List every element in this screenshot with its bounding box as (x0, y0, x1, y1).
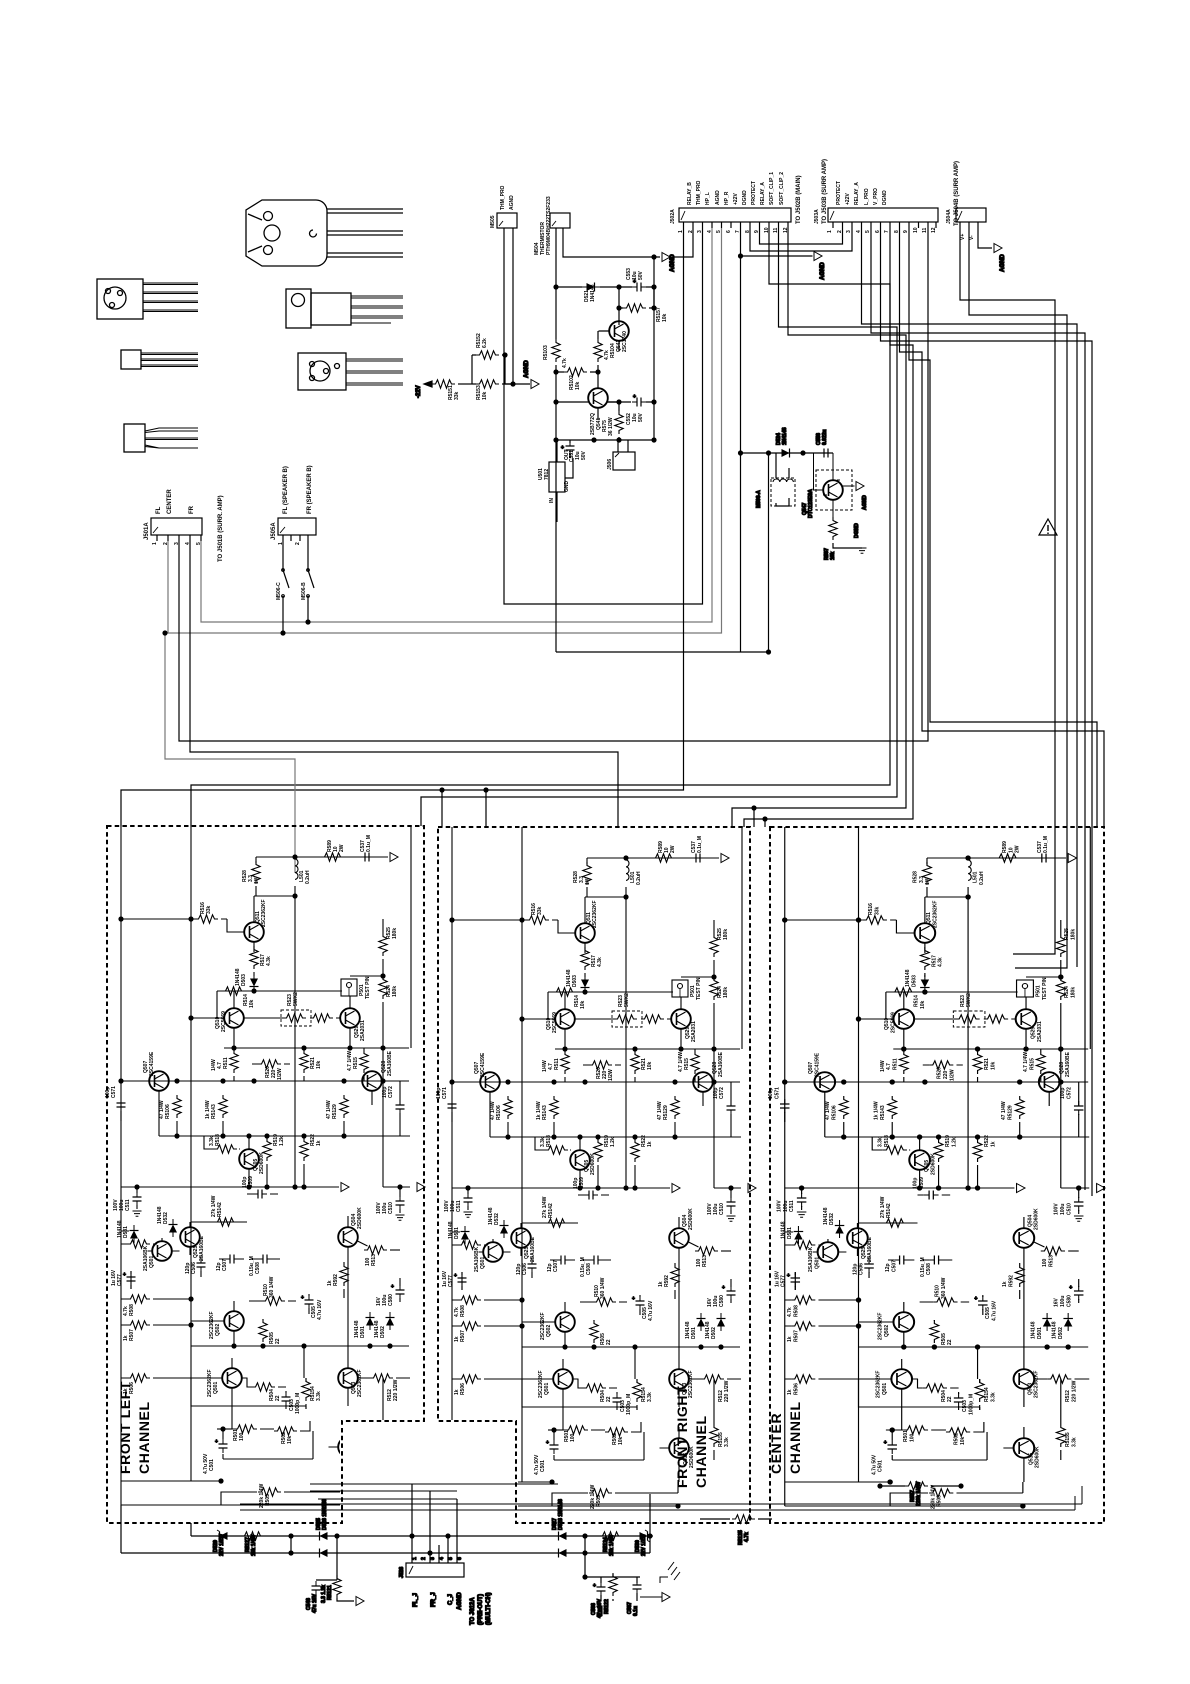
svg-text:J504A: J504A (946, 209, 952, 224)
wire J503A pin9 staircase to C box (909, 228, 1097, 827)
svg-text:1N4148: 1N4148 (782, 427, 788, 445)
svg-text:CENTER: CENTER (768, 1413, 784, 1474)
resistor R5104 4.7k (594, 339, 602, 362)
resistor R5102 10k (553, 368, 600, 376)
svg-text:DGND: DGND (882, 190, 888, 205)
wire J504A pin1 to AGND arrow (978, 228, 992, 248)
transistor package TO-220F pin view (298, 353, 403, 390)
svg-text:CENTER: CENTER (167, 489, 173, 514)
ground symbol right cluster (660, 1562, 680, 1583)
svg-text:M505: M505 (490, 215, 496, 228)
regulator U501 7812 (549, 440, 573, 522)
wire M505 pin2 to AGND rail (512, 228, 514, 384)
svg-text:-22V: -22V (416, 385, 422, 398)
svg-text:M506-B: M506-B (301, 582, 307, 600)
connector M505 (497, 213, 517, 228)
svg-text:+: + (633, 394, 636, 400)
capacitor C546 (312, 1580, 338, 1602)
svg-text:(MULTI-CH): (MULTI-CH) (486, 1592, 492, 1625)
svg-text:SOFT_CLIP_1: SOFT_CLIP_1 (769, 172, 775, 205)
svg-text:5: 5 (865, 230, 871, 233)
svg-text:AGND: AGND (820, 262, 826, 280)
transistor package TO-3 pin view (97, 279, 198, 319)
wire vertical trunk x654 (653, 257, 655, 441)
svg-text:50V: 50V (581, 450, 587, 460)
svg-text:18k 1/4W: 18k 1/4W (609, 1534, 615, 1556)
svg-text:33k: 33k (454, 391, 460, 400)
transistor package TO-220 side view (286, 289, 403, 328)
diode D521 1N4148 (582, 283, 600, 292)
svg-text:FR_J: FR_J (431, 1592, 437, 1607)
svg-text:7: 7 (884, 230, 890, 233)
svg-text:FL (SPEAKER B): FL (SPEAKER B) (283, 466, 289, 514)
wire J501A pin3 long run to J503A pin11 (179, 228, 928, 741)
wire J528 pin feeds (412, 1484, 457, 1563)
wire M504 pin2 up-over to AGND arrow (563, 228, 660, 257)
capacitor C552 10u 50V (619, 394, 654, 407)
svg-text:R5103: R5103 (543, 345, 549, 360)
svg-text:OUT: OUT (564, 449, 570, 460)
svg-text:M506-C: M506-C (276, 582, 282, 600)
diode D526 (314, 1549, 332, 1558)
AGND arrow top-center (662, 253, 670, 262)
wire feedback lines into J528 area (310, 1484, 558, 1499)
svg-text:3.3 1.2k: 3.3 1.2k (321, 1585, 327, 1603)
svg-text:50V: 50V (638, 412, 644, 422)
node right cluster (582, 1533, 587, 1538)
wire +22V trunk J502A pin7 down (556, 228, 769, 652)
dashed border FRONT RIGHT channel box (438, 827, 750, 1523)
connector J528 (406, 1563, 464, 1577)
svg-text:22V 1/2W: 22V 1/2W (219, 1534, 225, 1556)
svg-text:J503A: J503A (814, 209, 820, 224)
resistor R5124 (599, 1532, 622, 1540)
svg-text:10k: 10k (575, 381, 581, 390)
svg-text:L_PRO: L_PRO (864, 188, 870, 205)
svg-text:R5122: R5122 (604, 1599, 610, 1614)
svg-text:C_J: C_J (448, 1594, 454, 1605)
svg-text:AGND: AGND (862, 495, 868, 510)
wire switch M506-C down to HP_R line (282, 605, 284, 633)
connector J506 (613, 440, 635, 470)
resistor R5153 10k (472, 380, 513, 388)
diode D524 1N4148 (777, 449, 795, 458)
capacitor C568 (593, 1577, 606, 1601)
svg-text:(PRE-OUT): (PRE-OUT) (478, 1594, 484, 1625)
svg-text:36 1/2W: 36 1/2W (608, 417, 614, 436)
svg-text:0.1u: 0.1u (633, 1606, 639, 1616)
wire bottom bus lower (121, 1552, 650, 1554)
svg-text:1.2k: 1.2k (598, 1606, 604, 1616)
svg-text:PROTECT: PROTECT (751, 181, 757, 205)
resistor R5121 (333, 1575, 341, 1598)
wire switch M506-B down to HP_L line (307, 605, 309, 622)
wire J504A pin3 V- long run to C box (969, 228, 1067, 968)
svg-text:D526 1N4148: D526 1N4148 (322, 1499, 328, 1530)
svg-text:DGND: DGND (742, 190, 748, 205)
capacitor C553 10u 50V (631, 279, 654, 292)
svg-text:4.7k: 4.7k (744, 1532, 750, 1542)
svg-text:R5121: R5121 (327, 1585, 333, 1600)
wire stub into FR box x765 (764, 819, 766, 827)
svg-text:AGND: AGND (457, 1592, 463, 1610)
wire speaker HP_L from J501A pin5 (201, 228, 712, 622)
wire J502A pin12 staircase to FR box (732, 228, 906, 827)
svg-text:2: 2 (295, 542, 301, 545)
wire J503A pin6 long run to C box (881, 228, 1093, 1196)
svg-text:10k: 10k (830, 551, 836, 560)
wire Q541 emitter row to C552 (556, 401, 619, 403)
svg-text:FRONT LEFT: FRONT LEFT (117, 1381, 133, 1474)
svg-text:3: 3 (430, 1557, 436, 1560)
wire AGND row y384 (505, 383, 530, 385)
svg-text:CHANNEL: CHANNEL (693, 1415, 709, 1488)
ground arrow left cluster (356, 1597, 364, 1606)
svg-text:M506-A: M506-A (756, 490, 762, 508)
resistor R5125 (700, 1515, 772, 1523)
switch M506-B (307, 541, 314, 605)
transistor Q547 DTC123ESA (814, 453, 855, 517)
svg-text:AGND: AGND (524, 360, 530, 378)
wire link J502A pin8 to J503A pin3 (750, 228, 852, 251)
wire J502A pin2 to AGND arrow left (670, 228, 693, 257)
wire long feedback pair bottom (240, 1504, 1082, 1510)
svg-text:V-: V- (969, 235, 975, 240)
svg-text:PROTECT: PROTECT (836, 181, 842, 205)
svg-text:SOFT_CLIP_2: SOFT_CLIP_2 (779, 172, 785, 205)
svg-text:AGND: AGND (509, 195, 515, 210)
svg-text:TO J501B (SURR. AMP): TO J501B (SURR. AMP) (218, 495, 224, 562)
FRONT RIGHT channel circuit (436, 827, 756, 1509)
svg-text:3: 3 (846, 230, 852, 233)
svg-text:J505A: J505A (271, 522, 277, 540)
svg-text:6.2k: 6.2k (482, 338, 488, 348)
wire speaker B gray run to L501 FL (165, 633, 295, 873)
dashed border FRONT LEFT channel box (107, 826, 424, 1523)
wire J504A pin2 V+ long run to C box (960, 228, 1055, 954)
AGND arrow mid-left (531, 380, 539, 389)
svg-text:RELAY_B: RELAY_B (687, 182, 693, 205)
svg-text:RELAY_A: RELAY_A (854, 182, 860, 205)
svg-text:1: 1 (278, 542, 284, 545)
svg-text:6: 6 (726, 230, 732, 233)
transistor package TO-92 angled leads (124, 424, 198, 452)
svg-text:4: 4 (439, 1557, 445, 1560)
transistor Q542 2SC1740 (599, 320, 629, 351)
wire bus end turn-up to FR row (649, 1494, 651, 1553)
svg-text:10k: 10k (482, 391, 488, 400)
notch mask FL bottom-right (340, 1420, 426, 1521)
node bus junctions (288, 1533, 293, 1538)
svg-text:CHANNEL: CHANNEL (136, 1401, 152, 1474)
svg-text:HP_L: HP_L (705, 192, 711, 205)
svg-text:1: 1 (412, 1557, 418, 1560)
wire bottom row y440 (556, 439, 654, 441)
wire J503A pin5 long run to C box (871, 228, 1085, 1190)
svg-text:J502A: J502A (670, 209, 676, 224)
wire ground leg left cluster (336, 1536, 338, 1580)
svg-text:AGND: AGND (1000, 254, 1006, 272)
svg-text:6: 6 (457, 1557, 463, 1560)
svg-text:J506: J506 (607, 459, 613, 470)
connector J504A (956, 208, 986, 228)
svg-text:V_PRO: V_PRO (873, 188, 879, 205)
diode D528 (553, 1549, 571, 1558)
wire MODE-A feed row (741, 452, 834, 454)
svg-text:RELAY_A: RELAY_A (760, 182, 766, 205)
dashed border CENTER channel box (770, 827, 1104, 1523)
connector J502A (679, 208, 791, 228)
svg-text:J501A: J501A (144, 522, 150, 540)
capacitor C567 (633, 1577, 642, 1601)
ground arrow right cluster (662, 1593, 670, 1602)
resistor R557 center bottom (877, 1482, 963, 1490)
zener D529 (214, 1530, 232, 1542)
wire MODE-A drop to +22V row (768, 453, 770, 652)
svg-text:7812: 7812 (544, 469, 550, 480)
svg-text:PTH9M04BH222TS2F233: PTH9M04BH222TS2F233 (546, 196, 552, 255)
diode D527 (553, 1532, 571, 1541)
CENTER channel circuit (768, 827, 1105, 1509)
connector J505A (278, 518, 316, 541)
svg-text:2: 2 (421, 1557, 427, 1560)
diode D525 (314, 1532, 332, 1541)
wire J502A pin1 RELAY_B long run to FL rail (121, 228, 684, 826)
svg-text:CHANNEL: CHANNEL (787, 1401, 803, 1474)
resistor R5151 33k (432, 380, 472, 388)
connector M504 thermistor (550, 213, 570, 228)
svg-text:10: 10 (913, 227, 919, 233)
svg-text:TO J502B (MAIN): TO J502B (MAIN) (796, 175, 802, 224)
svg-text:18k 1/4W: 18k 1/4W (251, 1534, 257, 1556)
resistor R5157 10k (616, 304, 656, 312)
AGND arrow MODE-A (856, 482, 864, 491)
wire stub into FR box x754 (753, 808, 755, 827)
wire J503A pin8 staircase to C box right (900, 228, 1105, 827)
svg-text:47u 16V: 47u 16V (312, 1593, 318, 1613)
capacitor C556 0.022u (819, 449, 833, 458)
wire J502A pin10 staircase to FL box (191, 228, 890, 826)
wire R5152 right joins (504, 355, 506, 384)
FRONT LEFT channel circuit (105, 826, 425, 1508)
svg-text:12: 12 (931, 227, 937, 233)
svg-text:1N4148: 1N4148 (590, 284, 596, 302)
wire speaker HP_R from J501A pin2 (168, 228, 722, 633)
wire link J502A pin9 to J503A pin2 (760, 228, 843, 244)
ground DGND (858, 548, 867, 553)
svg-text:V+: V+ (960, 234, 966, 240)
resistor R597 10k (829, 517, 837, 540)
transistor Q541 2SB772Q (588, 372, 619, 420)
svg-text:J528: J528 (399, 1567, 405, 1578)
transistor package TO-3P outline (246, 200, 403, 266)
transistor package TO-92 flat (121, 350, 198, 369)
connector J503A (828, 208, 938, 228)
svg-text:220k 1/4W: 220k 1/4W (916, 1482, 922, 1506)
wire pin7 node to AGND arrow (741, 255, 813, 257)
svg-text:D528 1N4148: D528 1N4148 (558, 1499, 564, 1530)
svg-text:THM_PRO: THM_PRO (500, 185, 506, 210)
zener D530 (635, 1530, 653, 1542)
wire FL box bottom drops (121, 1505, 191, 1553)
svg-text:THM_PRO: THM_PRO (696, 180, 702, 205)
svg-text:IN: IN (549, 498, 555, 503)
resistor R5152 6.2k (472, 351, 505, 359)
wire M505 pin1 to J502A pin3 THM_PRO (504, 228, 703, 604)
svg-text:TO J503B (SURR AMP): TO J503B (SURR AMP) (822, 159, 828, 224)
switch M506-C (282, 541, 289, 605)
svg-text:FL: FL (156, 506, 162, 514)
relay M506-A (771, 453, 795, 506)
svg-text:2SC1740: 2SC1740 (622, 331, 628, 352)
svg-text:9: 9 (903, 230, 909, 233)
wire J503A pin4 long run to C box (862, 228, 1078, 967)
wire Q542 base column (597, 331, 599, 372)
svg-text:1: 1 (152, 542, 158, 545)
resistor R5127 (241, 1532, 264, 1540)
svg-text:FRONT RIGHT: FRONT RIGHT (674, 1386, 690, 1488)
wire D521 row (556, 286, 631, 288)
notch mask FR bottom-left (436, 1420, 518, 1521)
svg-text:TO J504B (SURR AMP): TO J504B (SURR AMP) (954, 161, 960, 226)
wire bracket R5152/R5153 (471, 355, 473, 384)
capacitor C551 10u 50V (561, 440, 575, 458)
wire vertical trunk x556 (M504 pin1) (555, 228, 557, 519)
wire right cluster drops (585, 1536, 640, 1577)
wire J502A pin11 staircase to FL box (421, 228, 897, 826)
svg-text:HP_R: HP_R (724, 191, 730, 205)
svg-text:4.7k: 4.7k (562, 358, 568, 368)
svg-text:TO J612A: TO J612A (470, 1597, 476, 1625)
svg-text:DTC123ESA: DTC123ESA (808, 489, 814, 518)
svg-text:+: + (593, 1583, 596, 1589)
wire bottom bus upper (191, 1535, 650, 1537)
svg-text:+22V: +22V (733, 193, 739, 205)
wire stub into FR box x486 (485, 790, 487, 827)
svg-text:1: 1 (827, 230, 833, 233)
svg-text:GND: GND (564, 481, 570, 493)
svg-text:0.022u: 0.022u (822, 429, 828, 445)
svg-text:11: 11 (922, 227, 928, 233)
svg-text:DGND: DGND (854, 523, 860, 538)
wire stub into FR box x442 (441, 790, 443, 827)
svg-text:FR: FR (189, 505, 195, 514)
svg-text:+22V: +22V (845, 193, 851, 205)
connector J501A (151, 518, 202, 541)
svg-text:10k: 10k (662, 313, 668, 322)
svg-text:22V 1/2W: 22V 1/2W (641, 1534, 647, 1556)
resistor R575 36 1/2W (615, 402, 623, 440)
resistor R5122 (609, 1573, 617, 1601)
svg-text:50V: 50V (638, 270, 644, 280)
node on AGND feed (651, 254, 656, 259)
svg-text:FL_J: FL_J (413, 1593, 419, 1607)
svg-text:5: 5 (448, 1557, 454, 1560)
resistor R5103 4.7k (552, 339, 560, 362)
wire J503A pin7 staircase to FR box (744, 228, 913, 827)
svg-text:AGND: AGND (715, 190, 721, 205)
svg-text:FR (SPEAKER B): FR (SPEAKER B) (307, 465, 313, 514)
warning triangle (1039, 519, 1057, 535)
supply arrow -22V (424, 383, 432, 385)
wire J501A pin4 long run down to FR box (190, 541, 618, 827)
